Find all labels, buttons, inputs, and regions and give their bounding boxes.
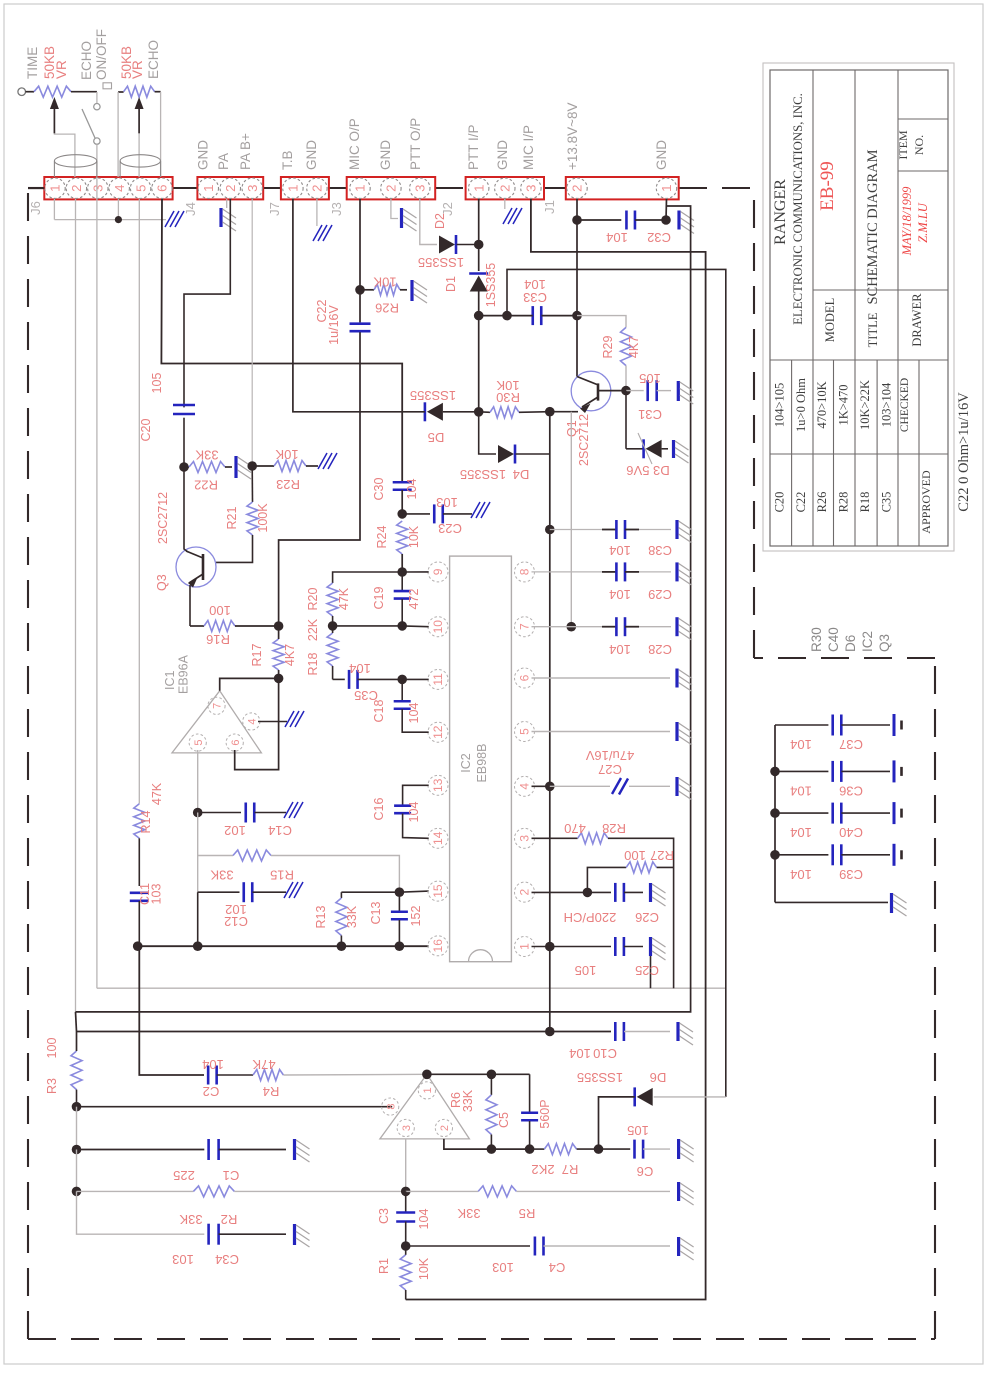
junction <box>661 215 671 225</box>
junction <box>328 621 338 631</box>
wire down to rail <box>197 892 199 946</box>
svg-text:472: 472 <box>407 589 421 610</box>
diode D3 5V6 (zener) <box>625 391 627 449</box>
svg-text:100: 100 <box>624 848 646 863</box>
wire J2 pin3 MIC I/P bus <box>406 199 706 1300</box>
potentiometer VR2 (ECHO 50KB) <box>118 91 124 93</box>
svg-text:C13: C13 <box>369 901 383 924</box>
capacitor C12 <box>197 856 199 893</box>
wire J1 pin1 GND stub <box>665 199 668 220</box>
switch ECHO ON/OFF <box>96 92 98 103</box>
svg-text:104: 104 <box>349 661 371 676</box>
wire wiper2 to J6 pin5 <box>138 133 140 177</box>
svg-text:C3: C3 <box>377 1208 391 1224</box>
capacitor C11 <box>138 838 140 886</box>
svg-text:103>104: 103>104 <box>880 382 894 427</box>
svg-text:100: 100 <box>45 1038 59 1059</box>
svg-text:R30: R30 <box>809 627 824 652</box>
svg-text:R7: R7 <box>562 1162 579 1177</box>
svg-text:ON/OFF: ON/OFF <box>94 29 109 80</box>
svg-text:16: 16 <box>431 939 445 953</box>
wire rail to C2 feed <box>139 946 204 1075</box>
svg-text:2K2: 2K2 <box>531 1162 554 1177</box>
ground <box>677 1139 680 1159</box>
svg-text:C29: C29 <box>648 587 672 602</box>
junction <box>72 1187 82 1197</box>
svg-text:7: 7 <box>518 623 532 630</box>
IC2 pin 2 <box>515 882 535 902</box>
svg-text:100K: 100K <box>256 503 270 533</box>
junction <box>474 311 484 321</box>
svg-text:104: 104 <box>609 642 631 657</box>
node C1 <box>76 1107 78 1150</box>
svg-text:IC2: IC2 <box>860 631 875 652</box>
connector J3 <box>347 177 436 199</box>
svg-text:1: 1 <box>422 1087 434 1093</box>
IC2 pin 13 <box>428 775 448 795</box>
IC2 pin 8 <box>515 562 535 582</box>
svg-text:14: 14 <box>431 831 445 845</box>
node R2 <box>76 1150 78 1192</box>
cap block bus <box>774 725 776 902</box>
capacitor C30 <box>393 481 412 484</box>
svg-text:C18: C18 <box>372 699 386 722</box>
IC2 pin 15 <box>428 881 448 901</box>
junction <box>545 1027 555 1037</box>
resistor R5 33K <box>406 1190 479 1192</box>
wire D5 cathode to J7 pin1 T.B <box>293 199 425 412</box>
svg-text:2: 2 <box>69 185 84 192</box>
GND bus J1 to bottom left <box>76 206 691 1012</box>
ground <box>410 280 413 301</box>
wire pin6 feedback <box>235 678 279 769</box>
resistor R21 <box>251 466 253 502</box>
svg-text:R13: R13 <box>314 905 328 928</box>
svg-text:R4: R4 <box>263 1084 280 1099</box>
junction <box>594 1144 604 1154</box>
svg-text:C39: C39 <box>839 867 863 882</box>
cable jacket 2 <box>120 155 160 167</box>
IC2 pin 11 <box>428 669 448 689</box>
svg-text:C20: C20 <box>773 492 787 513</box>
ground <box>677 1182 680 1201</box>
junction <box>133 941 143 951</box>
ground <box>677 211 680 230</box>
ground <box>285 711 294 727</box>
svg-text:6: 6 <box>518 674 532 681</box>
svg-text:1: 1 <box>471 185 486 192</box>
svg-text:104: 104 <box>790 783 812 798</box>
junction <box>583 888 593 898</box>
svg-text:470>10K: 470>10K <box>815 381 829 428</box>
wire J4 pin2 PA to C20 <box>184 199 230 407</box>
svg-text:104: 104 <box>407 802 421 823</box>
junction <box>770 808 780 818</box>
ground <box>677 1237 680 1256</box>
junction <box>401 1187 411 1197</box>
svg-text:GND: GND <box>304 140 319 170</box>
svg-text:+13.8V~8V: +13.8V~8V <box>565 102 580 170</box>
svg-text:103: 103 <box>150 884 164 905</box>
svg-text:225: 225 <box>173 1168 195 1183</box>
IC2 pin 6 <box>515 668 535 688</box>
ground <box>471 502 480 518</box>
capacitor C35 <box>333 678 345 680</box>
diode D5 1SS355 <box>424 402 427 421</box>
svg-text:ECHO: ECHO <box>146 40 161 79</box>
bus C33 up-right to D6 (long loop) <box>507 269 726 1097</box>
junction <box>115 216 122 223</box>
ground <box>649 883 652 902</box>
diode D2 1SS355 <box>439 236 455 254</box>
svg-text:6: 6 <box>155 185 170 192</box>
wire J6 pin1 to border <box>28 187 44 189</box>
svg-text:10K: 10K <box>417 1257 431 1280</box>
common rail <box>138 945 429 947</box>
svg-text:EB96A: EB96A <box>177 654 191 694</box>
svg-text:104: 104 <box>609 587 631 602</box>
svg-text:R24: R24 <box>375 525 389 548</box>
junction <box>502 311 512 321</box>
svg-text:104: 104 <box>790 867 812 882</box>
svg-text:C30: C30 <box>372 477 386 500</box>
svg-text:1SS355: 1SS355 <box>484 263 498 308</box>
svg-text:5: 5 <box>518 728 532 735</box>
svg-text:103: 103 <box>492 1260 514 1275</box>
svg-text:33K: 33K <box>195 448 218 463</box>
resistor R16 <box>190 625 204 627</box>
svg-text:100: 100 <box>209 603 231 618</box>
svg-text:R18: R18 <box>306 652 320 675</box>
svg-text:104: 104 <box>569 1046 591 1061</box>
svg-text:104: 104 <box>202 1057 224 1072</box>
svg-text:MODEL: MODEL <box>823 298 837 342</box>
svg-text:10: 10 <box>431 620 445 634</box>
svg-text:R30: R30 <box>496 390 520 405</box>
wire C22 down to R17 node <box>279 332 360 626</box>
svg-text:TIME: TIME <box>25 47 40 79</box>
junction <box>355 285 365 295</box>
wire J3 pin3 PTT O/P to D2 <box>420 199 437 245</box>
svg-text:R29: R29 <box>601 335 615 358</box>
svg-text:105: 105 <box>150 373 164 394</box>
svg-text:2: 2 <box>518 888 532 895</box>
ground <box>675 669 678 688</box>
ground <box>675 617 678 636</box>
connector J4 <box>197 177 263 199</box>
ground J3 pin2 <box>391 199 398 219</box>
svg-text:R26: R26 <box>815 492 829 513</box>
connector J6 <box>44 177 172 199</box>
svg-text:R27: R27 <box>650 848 674 863</box>
junction <box>545 407 555 417</box>
IC2 pin 1 <box>515 937 535 957</box>
wire TIME wiper line down (to R3) <box>75 199 77 1012</box>
cable jacket 1 <box>54 155 96 167</box>
svg-text:105: 105 <box>627 1123 649 1138</box>
svg-text:33K: 33K <box>210 868 233 883</box>
svg-text:R1: R1 <box>377 1258 391 1274</box>
junction <box>621 386 631 396</box>
ground <box>219 208 222 227</box>
svg-text:IC2: IC2 <box>459 753 473 773</box>
svg-text:103: 103 <box>436 495 458 510</box>
svg-text:C33: C33 <box>523 290 547 305</box>
svg-text:J3: J3 <box>329 202 344 216</box>
svg-text:GND: GND <box>378 140 393 170</box>
svg-text:3: 3 <box>245 185 260 192</box>
capacitor C32 <box>577 219 621 221</box>
junction <box>401 1241 411 1251</box>
svg-text:C14: C14 <box>268 823 292 838</box>
wire pin6 to ground <box>532 677 671 679</box>
svg-text:2SC2712: 2SC2712 <box>577 414 591 466</box>
ground <box>649 937 652 956</box>
svg-text:C36: C36 <box>839 783 863 798</box>
wire emitter drop to pin7 <box>570 412 572 627</box>
ground <box>293 1139 296 1160</box>
svg-text:104: 104 <box>407 703 421 724</box>
svg-text:GND: GND <box>654 140 669 170</box>
svg-text:2: 2 <box>384 185 399 192</box>
junction <box>545 942 555 952</box>
ground <box>284 802 293 818</box>
wire J2 pin1 PTT I/P down <box>478 199 480 245</box>
junction <box>395 887 405 897</box>
ground <box>672 440 675 458</box>
junction <box>474 407 484 417</box>
bus emitter node down <box>549 412 551 1032</box>
wire J1 pin2 +13.8V down <box>576 199 578 220</box>
svg-text:C40: C40 <box>839 825 863 840</box>
svg-text:2: 2 <box>570 185 585 192</box>
junction <box>770 850 780 860</box>
junction <box>337 941 347 951</box>
svg-text:10K: 10K <box>407 525 421 548</box>
ground J7 pin2 <box>316 199 318 226</box>
svg-text:D3 5V6: D3 5V6 <box>626 463 669 478</box>
capacitor C14 <box>198 812 241 814</box>
svg-text:3: 3 <box>524 185 539 192</box>
svg-text:R23: R23 <box>276 477 300 492</box>
svg-text:2: 2 <box>439 1125 451 1131</box>
svg-text:47K: 47K <box>337 587 351 610</box>
svg-text:1K>470: 1K>470 <box>836 384 850 425</box>
resistor R3 100 <box>76 1012 77 1032</box>
diode D1 1SS355 <box>478 245 480 272</box>
svg-text:MAY/18/1999: MAY/18/1999 <box>900 186 914 257</box>
junction <box>397 675 407 685</box>
wire C20 to R22 <box>183 418 185 467</box>
svg-text:RANGER: RANGER <box>772 179 789 245</box>
resistor R4 47K <box>253 1070 283 1081</box>
svg-text:104: 104 <box>524 277 546 292</box>
capacitor C27 47u/16V <box>532 785 550 787</box>
wire Q3 emitter to R16 <box>189 585 191 626</box>
svg-text:C19: C19 <box>372 586 386 609</box>
svg-text:Q3: Q3 <box>877 634 892 652</box>
capacitor C16 <box>403 785 429 805</box>
wire to pin9 <box>402 571 429 573</box>
wire IC1 out (pin7 apex) to node <box>220 678 279 690</box>
wire C20/R22 node to Q3 collector <box>184 467 188 552</box>
resistor R6 33K <box>490 1074 492 1095</box>
svg-text:104: 104 <box>609 543 631 558</box>
svg-text:J1: J1 <box>542 200 557 214</box>
svg-text:8: 8 <box>385 1104 397 1110</box>
svg-text:D6: D6 <box>650 1070 667 1085</box>
svg-text:R3: R3 <box>45 1078 59 1094</box>
svg-text:4K7: 4K7 <box>627 336 641 358</box>
IC2 pin 14 <box>428 828 448 848</box>
op-amp (second half) <box>380 1074 470 1139</box>
svg-text:10K>22K: 10K>22K <box>858 380 872 430</box>
ground <box>234 456 237 478</box>
svg-text:R16: R16 <box>206 632 230 647</box>
junction <box>487 1144 497 1154</box>
ground <box>893 802 896 824</box>
svg-text:VR: VR <box>130 60 145 79</box>
svg-text:1: 1 <box>286 185 301 192</box>
svg-text:C27: C27 <box>598 762 622 777</box>
wire to pin15 <box>399 891 428 892</box>
svg-text:105: 105 <box>639 371 661 386</box>
svg-text:MIC I/P: MIC I/P <box>521 125 536 170</box>
svg-text:J4: J4 <box>183 202 198 216</box>
capacitor C29 <box>532 571 603 573</box>
svg-text:C12: C12 <box>224 914 248 929</box>
wire wiper1 to J6 pin2 <box>54 133 75 177</box>
svg-text:2: 2 <box>498 185 513 192</box>
svg-text:D5: D5 <box>428 430 445 445</box>
capacitor C13 <box>398 892 400 911</box>
junction <box>179 462 189 472</box>
svg-text:1SS355: 1SS355 <box>460 467 506 482</box>
junction <box>525 1144 535 1154</box>
svg-text:470: 470 <box>564 821 586 836</box>
ground J2 pin2 <box>504 199 506 209</box>
svg-text:4: 4 <box>247 718 259 724</box>
junction <box>545 782 555 792</box>
ground J4 pin2 <box>226 199 228 208</box>
wire VR2 left to J6 pin4 <box>117 92 119 177</box>
svg-text:D6: D6 <box>843 635 858 652</box>
svg-text:C20: C20 <box>139 418 153 441</box>
svg-text:3: 3 <box>91 185 106 192</box>
capacitor C10 <box>77 1031 612 1033</box>
svg-text:R22: R22 <box>194 478 218 493</box>
wire D5 column <box>478 316 480 412</box>
capacitor C3 104 <box>405 1191 407 1212</box>
svg-text:4: 4 <box>112 185 127 192</box>
resistor R17 <box>273 639 284 670</box>
capacitor C22 <box>359 290 361 323</box>
svg-text:C31: C31 <box>638 407 662 422</box>
svg-text:C10: C10 <box>593 1046 617 1061</box>
resistor R13 <box>340 892 342 898</box>
svg-text:R21: R21 <box>225 506 239 529</box>
svg-text:PTT I/P: PTT I/P <box>466 124 481 170</box>
capacitor C20 <box>173 404 195 407</box>
ground <box>284 882 293 898</box>
capacitor C5 560P <box>529 1074 531 1112</box>
svg-text:1SS355: 1SS355 <box>418 255 464 270</box>
svg-text:13: 13 <box>431 778 445 792</box>
svg-text:15: 15 <box>431 884 445 898</box>
junction <box>247 461 257 471</box>
wire ECHO switch line down <box>96 177 98 988</box>
svg-text:GND: GND <box>196 140 211 170</box>
svg-text:C25: C25 <box>635 963 659 978</box>
svg-text:3: 3 <box>413 185 428 192</box>
capacitor C23 <box>402 513 430 515</box>
ground <box>165 211 174 227</box>
resistor R7 2K2 <box>530 1148 545 1150</box>
resistor R26 <box>360 289 374 291</box>
svg-text:Q3: Q3 <box>155 574 169 591</box>
svg-text:EB-99: EB-99 <box>817 161 838 211</box>
IC2 pin 9 <box>428 562 448 582</box>
svg-text:104>105: 104>105 <box>773 383 787 428</box>
capacitor C33 <box>479 315 507 317</box>
svg-text:33K: 33K <box>179 1212 202 1227</box>
svg-text:2: 2 <box>223 185 238 192</box>
svg-text:SCHEMATIC DIAGRAM: SCHEMATIC DIAGRAM <box>865 149 881 304</box>
IC2 pin 10 <box>428 617 448 637</box>
svg-text:PA B+: PA B+ <box>238 133 253 170</box>
svg-text:ECHO: ECHO <box>79 41 94 80</box>
svg-text:560P: 560P <box>538 1099 552 1128</box>
capacitor C2 104 <box>207 1066 210 1085</box>
svg-text:D2: D2 <box>433 213 447 229</box>
resistor R28 <box>532 837 578 839</box>
wire J4 pin3 PA B+ down to R23 <box>251 199 253 466</box>
ground <box>676 1022 679 1041</box>
ground <box>675 777 678 796</box>
wire ECHO line across (gray bus) <box>97 987 726 989</box>
capacitor C19 <box>401 572 403 590</box>
svg-text:103: 103 <box>172 1252 194 1267</box>
svg-text:105: 105 <box>575 963 597 978</box>
resistor R1 10K <box>400 1255 411 1290</box>
wire VR2 right to J6 pin6 <box>160 92 162 177</box>
svg-text:R2: R2 <box>221 1212 238 1227</box>
op-amp IC1 EB96A <box>172 691 261 753</box>
svg-text:C34: C34 <box>215 1252 239 1267</box>
junction <box>397 621 407 631</box>
ground <box>893 714 896 736</box>
wire pin2 feedback rail <box>444 1139 530 1149</box>
svg-text:47K: 47K <box>150 782 164 805</box>
junction <box>72 1145 82 1155</box>
capacitor C28 <box>532 626 603 628</box>
svg-text:9: 9 <box>431 568 445 575</box>
ground <box>318 453 327 469</box>
svg-text:1: 1 <box>353 185 368 192</box>
svg-text:DRAWER: DRAWER <box>910 293 924 347</box>
svg-text:C28: C28 <box>648 642 672 657</box>
svg-text:C22 0 Ohm>1u/16V: C22 0 Ohm>1u/16V <box>956 392 972 512</box>
svg-text:3: 3 <box>401 1125 413 1131</box>
junction <box>422 1070 432 1080</box>
svg-text:47u/16V: 47u/16V <box>585 748 634 763</box>
svg-text:104: 104 <box>790 737 812 752</box>
capacitor C4 103 <box>406 1245 530 1247</box>
svg-text:D4: D4 <box>513 467 530 482</box>
svg-text:C4: C4 <box>549 1260 566 1275</box>
svg-text:R20: R20 <box>306 587 320 610</box>
ground <box>890 893 893 913</box>
